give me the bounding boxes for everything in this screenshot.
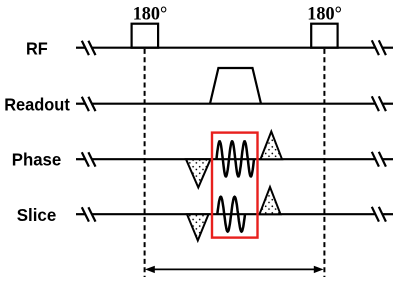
- svg-text:180°: 180°: [133, 5, 168, 25]
- svg-text:180°: 180°: [307, 5, 342, 25]
- svg-text:RF: RF: [26, 39, 48, 59]
- svg-text:Readout: Readout: [4, 95, 70, 115]
- svg-text:Phase: Phase: [12, 150, 62, 170]
- svg-text:Slice: Slice: [17, 205, 57, 225]
